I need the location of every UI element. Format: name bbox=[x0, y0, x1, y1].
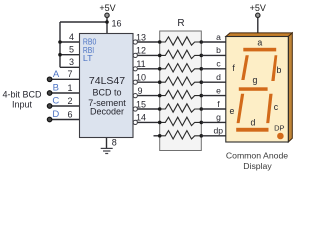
svg-text:1: 1 bbox=[67, 83, 72, 93]
svg-text:2: 2 bbox=[67, 96, 72, 106]
svg-text:LT: LT bbox=[83, 53, 93, 63]
svg-text:dp: dp bbox=[214, 126, 224, 136]
svg-text:B: B bbox=[53, 83, 59, 94]
svg-text:7: 7 bbox=[67, 69, 72, 79]
svg-text:b: b bbox=[216, 45, 221, 55]
svg-text:11: 11 bbox=[136, 59, 145, 69]
svg-text:74LS47: 74LS47 bbox=[89, 75, 125, 87]
svg-text:D: D bbox=[52, 109, 59, 120]
svg-text:4: 4 bbox=[69, 32, 74, 42]
svg-text:3: 3 bbox=[69, 57, 74, 67]
svg-text:Input: Input bbox=[12, 99, 33, 109]
svg-text:6: 6 bbox=[67, 110, 72, 120]
svg-text:a: a bbox=[257, 38, 262, 48]
svg-text:g: g bbox=[216, 112, 221, 122]
svg-text:Display: Display bbox=[243, 161, 272, 171]
svg-text:e: e bbox=[216, 85, 221, 95]
svg-text:16: 16 bbox=[112, 19, 122, 29]
svg-text:g: g bbox=[253, 75, 258, 85]
svg-text:8: 8 bbox=[112, 137, 117, 147]
svg-text:e: e bbox=[230, 106, 235, 116]
svg-text:4-bit BCD: 4-bit BCD bbox=[2, 89, 42, 99]
svg-text:C: C bbox=[52, 96, 59, 107]
svg-text:A: A bbox=[53, 69, 60, 80]
svg-text:9: 9 bbox=[137, 86, 142, 96]
svg-text:5: 5 bbox=[69, 44, 74, 54]
svg-text:c: c bbox=[274, 102, 279, 112]
svg-text:Common Anode: Common Anode bbox=[226, 151, 288, 161]
svg-text:R: R bbox=[177, 18, 184, 29]
svg-text:Decoder: Decoder bbox=[90, 107, 124, 117]
svg-text:BCD to: BCD to bbox=[92, 87, 121, 97]
svg-text:DP: DP bbox=[274, 123, 284, 132]
svg-text:c: c bbox=[216, 59, 221, 69]
svg-text:+5V: +5V bbox=[99, 3, 115, 13]
svg-text:a: a bbox=[216, 32, 221, 42]
svg-text:b: b bbox=[276, 65, 281, 75]
svg-text:+5V: +5V bbox=[250, 3, 266, 13]
svg-text:d: d bbox=[216, 72, 221, 82]
svg-text:d: d bbox=[250, 118, 255, 128]
